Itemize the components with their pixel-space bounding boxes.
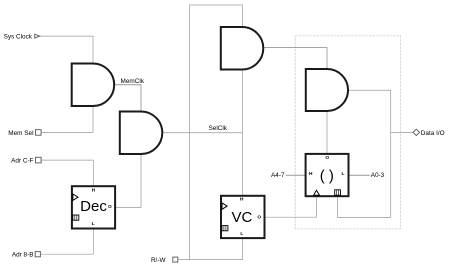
wire MemClk: G1 output to G2 top input (114, 85, 141, 112)
latch enable pin marker (335, 190, 341, 195)
input marker Adr C-F (36, 157, 42, 163)
svg-text:H: H (92, 188, 96, 194)
and-gate G3 (221, 27, 264, 70)
input marker Mem Sel (36, 130, 42, 136)
svg-text:H: H (240, 197, 244, 203)
wire Dec O output to G2 bottom input (115, 154, 141, 207)
svg-text:VC: VC (231, 209, 252, 226)
wire latch L output to A0-3 (349, 174, 370, 176)
output marker Data I/O (413, 129, 419, 135)
input marker Sys Clock (35, 34, 40, 38)
input marker Adr 8-B (35, 252, 40, 257)
and-gate G1 (72, 64, 115, 107)
wire A4-7 to latch H input (286, 174, 306, 176)
svg-text:Dec: Dec (80, 198, 107, 215)
svg-text:O: O (325, 155, 329, 161)
wire Sys Clock to G1 top input (40, 36, 94, 63)
svg-text:R/-W: R/-W (151, 257, 167, 264)
wire Data I/O stub (391, 131, 414, 133)
and-gate G2 (120, 112, 163, 155)
svg-text:O: O (257, 214, 261, 220)
memory block container (grey box) (295, 36, 400, 229)
VC enable pin marker (222, 226, 228, 231)
svg-text:O: O (108, 204, 112, 210)
wire G4 output to data bus vertical (348, 90, 390, 217)
decoder Dec body (72, 186, 115, 228)
svg-text:( ): ( ) (320, 168, 334, 185)
svg-text:L: L (240, 231, 243, 237)
wire R/-W to VC L input (178, 238, 243, 260)
svg-text:SelClk: SelClk (209, 125, 228, 132)
svg-text:Adr C-F: Adr C-F (11, 158, 33, 165)
Dec enable pin marker (73, 215, 79, 220)
input marker R/-W (173, 257, 178, 262)
register VC body (221, 196, 265, 238)
VC clock-input triangle marker (222, 203, 227, 209)
svg-text:H: H (309, 171, 313, 177)
decoder Dec (72, 186, 115, 228)
svg-text:Sys Clock: Sys Clock (4, 33, 33, 40)
wire Mem Sel to G1 bottom input (41, 106, 93, 132)
svg-text:A4-7: A4-7 (271, 172, 285, 179)
svg-text:MemClk: MemClk (121, 78, 145, 85)
wire G3 output to G4 top input (263, 48, 327, 69)
wire R/-W riser to top (190, 5, 243, 260)
wire SelClk: G2 output to vertical bus (162, 132, 242, 134)
svg-text:L: L (92, 221, 95, 227)
Dec clock-input triangle marker (73, 194, 78, 200)
wire Adr 8-B to Dec L input (40, 229, 93, 255)
svg-text:Data I/O: Data I/O (421, 130, 445, 137)
latch ( ) body (306, 154, 349, 196)
wire Adr C-F to Dec H input (41, 160, 93, 186)
svg-text:Mem Sel: Mem Sel (8, 130, 33, 137)
latch clock-input triangle marker (314, 190, 320, 195)
svg-text:Adr 8-B: Adr 8-B (12, 252, 34, 259)
wire G4 bottom input to latch O pin (326, 111, 328, 154)
svg-text:L: L (342, 171, 345, 177)
register VC (221, 196, 265, 238)
wire VC O output to latch clock pin (265, 196, 317, 217)
latch ( ) (306, 154, 349, 196)
and-gate G4 (306, 69, 348, 111)
svg-text:A0-3: A0-3 (371, 172, 385, 179)
wire G3 bottom input to VC H input (crosses SelClk) (241, 70, 243, 196)
wire latch enable pin to data bus (338, 196, 391, 217)
